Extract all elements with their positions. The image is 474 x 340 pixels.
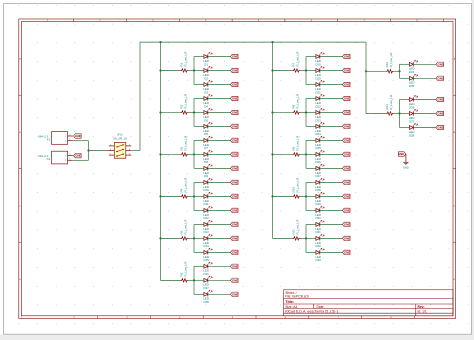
wire feed R6 xyxy=(161,279,195,281)
LED D5 xyxy=(203,108,212,122)
LED D25 xyxy=(315,136,324,150)
svg-text:Title:: Title: xyxy=(285,300,294,304)
junction branch R5 xyxy=(193,237,195,239)
svg-text:GND: GND xyxy=(344,139,350,143)
wire feed R8 xyxy=(273,111,307,113)
wire GND label to ground symbol xyxy=(405,154,407,162)
connector X1 (MA-2-1) xyxy=(39,132,73,145)
svg-text:R_Low_LR: R_Low_LR xyxy=(183,177,187,193)
LED D36 xyxy=(409,95,418,109)
wire feed R3 xyxy=(161,153,195,155)
resistor R10 xyxy=(291,177,300,198)
wire to LED D25 xyxy=(306,139,316,141)
GND global label at D29 xyxy=(342,194,350,198)
wire feed R11 xyxy=(273,237,307,239)
LED D26 xyxy=(315,150,324,164)
svg-text:GND: GND xyxy=(344,167,350,171)
svg-text:GND: GND xyxy=(232,292,238,296)
LED D15 xyxy=(203,248,212,262)
LED D13 xyxy=(203,220,212,234)
GND global label at D5 xyxy=(230,110,238,114)
GND global label at D17 xyxy=(230,278,238,282)
wire LED D38 to GND label xyxy=(413,127,436,129)
wire LED D6 to GND label xyxy=(208,125,231,127)
wire LED D25 to GND label xyxy=(320,139,343,141)
wire LED D20 to GND label xyxy=(320,70,343,72)
svg-text:D3: D3 xyxy=(204,90,208,94)
GND global label at D28 xyxy=(342,180,350,184)
wire branch R2 xyxy=(193,99,195,127)
wire to LED D35 xyxy=(400,77,410,79)
svg-text:D8: D8 xyxy=(204,160,208,164)
wire to LED D14 xyxy=(194,237,204,239)
svg-text:GND: GND xyxy=(232,111,238,115)
GND global label at D21 xyxy=(342,82,350,86)
LED D29 xyxy=(315,192,324,206)
svg-text:D30: D30 xyxy=(315,216,321,220)
LED D9 xyxy=(203,164,212,178)
svg-text:D34: D34 xyxy=(409,70,415,74)
svg-text:D23: D23 xyxy=(315,118,321,122)
svg-text:GND: GND xyxy=(437,76,443,80)
svg-text:GND: GND xyxy=(437,126,443,130)
wire branch R9 xyxy=(305,140,307,168)
wire to LED D15 xyxy=(194,251,204,253)
GND global label at D37 xyxy=(436,111,444,115)
ground power symbol GND xyxy=(403,162,409,169)
junction branch R6 xyxy=(193,279,195,281)
wire feed R4 xyxy=(161,195,195,197)
svg-text:GND: GND xyxy=(232,278,238,282)
svg-text:GND: GND xyxy=(344,209,350,213)
GND global label at D8 xyxy=(230,152,238,156)
GND global label at D25 xyxy=(342,138,350,142)
wire LED D14 to GND label xyxy=(208,237,231,239)
resistor R7 xyxy=(291,51,300,72)
wire LED D4 to GND label xyxy=(208,98,231,100)
LED D12 xyxy=(203,206,212,220)
svg-text:GND: GND xyxy=(344,55,350,59)
wire LED D26 to GND label xyxy=(320,153,343,155)
wire LED D13 to GND label xyxy=(208,223,231,225)
wire to LED D38 xyxy=(400,127,410,129)
svg-text:R_Low_LR: R_Low_LR xyxy=(295,219,299,235)
frame row ticks and letters xyxy=(19,57,456,281)
wire LED D11 to GND label xyxy=(208,195,231,197)
GND global label at D35 xyxy=(436,76,444,80)
LED D35 xyxy=(409,74,418,88)
LED D20 xyxy=(315,66,324,80)
svg-text:GND: GND xyxy=(232,153,238,157)
LED D27 xyxy=(315,164,324,178)
svg-text:GND: GND xyxy=(232,97,238,101)
LED D30 xyxy=(315,206,324,220)
svg-text:D11: D11 xyxy=(204,202,209,206)
wire to LED D5 xyxy=(194,112,204,114)
GND global label at D22 xyxy=(342,96,350,100)
wire to LED D37 xyxy=(400,113,410,115)
wire LED D17 to GND label xyxy=(208,279,231,281)
junction branch R10 xyxy=(305,195,307,197)
wire LED D5 to GND label xyxy=(208,112,231,114)
svg-text:R_Low_LR: R_Low_LR xyxy=(183,219,187,235)
wire to LED D32 xyxy=(306,237,316,239)
resistor R5 xyxy=(179,219,188,240)
svg-text:GND: GND xyxy=(344,97,350,101)
wire to LED D12 xyxy=(194,209,204,211)
wire LED D7 to GND label xyxy=(208,139,231,141)
GND global label at D9 xyxy=(230,166,238,170)
wire feed R1 xyxy=(161,69,195,71)
svg-text:GND: GND xyxy=(344,111,350,115)
svg-text:File: bePCB.sch: File: bePCB.sch xyxy=(285,295,309,299)
svg-text:GND: GND xyxy=(344,223,350,227)
wire to LED D21 xyxy=(306,84,316,86)
junction middle bus R9 xyxy=(271,153,273,155)
LED D3 xyxy=(203,80,212,94)
svg-text:GND: GND xyxy=(232,83,238,87)
GND global label at D38 xyxy=(436,125,444,129)
svg-text:GND: GND xyxy=(344,251,350,255)
wire feed R2 xyxy=(161,111,195,113)
LED D10 xyxy=(203,178,212,192)
svg-text:GND: GND xyxy=(232,167,238,171)
GND global label at D4 xyxy=(230,96,238,100)
svg-text:GND: GND xyxy=(232,181,238,185)
wire LED D29 to GND label xyxy=(320,195,343,197)
svg-text:GND: GND xyxy=(232,209,238,213)
wire X1 pin1 to junction xyxy=(73,140,89,142)
svg-text:X2: X2 xyxy=(47,157,51,161)
svg-text:GND: GND xyxy=(398,152,404,156)
svg-text:GND: GND xyxy=(437,62,443,66)
wire to LED D19 xyxy=(306,56,316,58)
title block xyxy=(284,290,454,316)
wire to LED D4 xyxy=(194,98,204,100)
wire LED D8 to GND label xyxy=(208,153,231,155)
junction top wire / middle bus xyxy=(271,41,273,43)
wire junction to SV1 pin 3 xyxy=(89,150,109,152)
GND global label at D10 xyxy=(230,180,238,184)
GND global label at D33 xyxy=(342,250,350,254)
wire to LED D29 xyxy=(306,195,316,197)
wire LED D37 to GND label xyxy=(413,113,436,115)
svg-text:GND: GND xyxy=(344,69,350,73)
svg-text:R_Low_LR: R_Low_LR xyxy=(183,261,187,277)
svg-text:D6: D6 xyxy=(204,132,208,136)
svg-text:R_Low_LR: R_Low_LR xyxy=(183,51,187,67)
GND global label at D23 xyxy=(342,110,350,114)
GND global label at D30 xyxy=(342,208,350,212)
svg-text:GND: GND xyxy=(344,181,350,185)
svg-text:D32: D32 xyxy=(315,244,321,248)
wire LED D33 to GND label xyxy=(320,251,343,253)
svg-text:GND: GND xyxy=(437,98,443,102)
resistor R1 xyxy=(179,51,188,72)
svg-text:D15: D15 xyxy=(203,258,209,262)
wire to LED D7 xyxy=(194,139,204,141)
svg-text:GND: GND xyxy=(232,55,238,59)
wire feed R13 xyxy=(366,113,400,115)
wire to LED D9 xyxy=(194,167,204,169)
LED D4 xyxy=(203,94,212,108)
GND global label at D19 xyxy=(342,54,350,58)
wire to LED D23 xyxy=(306,112,316,114)
wire to LED D33 xyxy=(306,251,316,253)
wire branch R13 xyxy=(399,100,401,128)
LED D37 xyxy=(409,109,418,123)
GND global label at D16 xyxy=(230,264,238,268)
LED D32 xyxy=(315,234,324,248)
wire to LED D20 xyxy=(306,70,316,72)
resistor R9 xyxy=(291,135,300,156)
wire LED D22 to GND label xyxy=(320,98,343,100)
GND global label at D26 xyxy=(342,152,350,156)
wire to LED D22 xyxy=(306,98,316,100)
wire LED D10 to GND label xyxy=(208,181,231,183)
wire LED D3 to GND label xyxy=(208,84,231,86)
resistor R13 xyxy=(385,94,394,115)
svg-text:D35: D35 xyxy=(409,84,415,88)
junction branch R1 xyxy=(193,69,195,71)
svg-text:KiCad E.D.A. eeschema (5.1.5): KiCad E.D.A. eeschema (5.1.5)-1 xyxy=(285,309,338,313)
LED D8 xyxy=(203,150,212,164)
svg-text:2: 2 xyxy=(69,154,70,156)
sheet frame inner border xyxy=(21,22,453,316)
svg-text:1: 1 xyxy=(110,144,111,146)
junction branch R8 xyxy=(305,111,307,113)
svg-text:4: 4 xyxy=(129,149,130,151)
wire branch R11 xyxy=(305,224,307,252)
svg-text:D7: D7 xyxy=(204,146,208,150)
svg-text:R_Low_LR: R_Low_LR xyxy=(295,135,299,151)
connector X2 (MA-2-1) xyxy=(39,151,73,164)
LED D23 xyxy=(315,108,324,122)
svg-text:D37: D37 xyxy=(409,119,415,123)
svg-text:D29: D29 xyxy=(315,202,321,206)
wire LED D12 to GND label xyxy=(208,209,231,211)
LED D34 xyxy=(409,60,418,74)
LED D6 xyxy=(203,122,212,136)
wire to LED D30 xyxy=(306,209,316,211)
wire branch R5 xyxy=(193,224,195,252)
wire to LED D36 xyxy=(400,99,410,101)
svg-text:GND: GND xyxy=(232,264,238,268)
GND global label at power symbol xyxy=(398,152,406,156)
GND global label at D34 xyxy=(436,62,444,66)
svg-text:GND: GND xyxy=(437,112,443,116)
GND global label at D15 xyxy=(230,250,238,254)
wire LED D23 to GND label xyxy=(320,112,343,114)
svg-text:5: 5 xyxy=(110,154,111,156)
svg-text:R_Low_LR: R_Low_LR xyxy=(183,93,187,109)
svg-text:D36: D36 xyxy=(409,105,415,109)
junction top wire / left bus xyxy=(159,41,161,43)
svg-text:D38: D38 xyxy=(409,133,415,137)
junction left bus R3 xyxy=(159,153,161,155)
svg-text:R_Low_LR: R_Low_LR xyxy=(183,135,187,151)
wire to LED D31 xyxy=(306,223,316,225)
GND global label at X1 pin 2 xyxy=(74,134,82,138)
frame column ticks and numbers xyxy=(21,19,444,319)
LED D11 xyxy=(203,192,212,206)
GND global label at D31 xyxy=(342,222,350,226)
svg-text:GND: GND xyxy=(232,139,238,143)
wire to LED D13 xyxy=(194,223,204,225)
GND global label at D2 xyxy=(230,68,238,72)
wire to LED D28 xyxy=(306,181,316,183)
wire LED D2 to GND label xyxy=(208,70,231,72)
svg-text:R_Low_LR: R_Low_LR xyxy=(389,52,393,68)
wire branch R4 xyxy=(193,182,195,210)
wire LED D27 to GND label xyxy=(320,167,343,169)
resistor R12 xyxy=(385,52,394,73)
svg-text:D21: D21 xyxy=(315,90,321,94)
svg-text:6: 6 xyxy=(129,154,130,156)
svg-text:D26: D26 xyxy=(315,160,321,164)
GND global label at X2 pin 2 xyxy=(74,153,82,157)
wire LED D16 to GND label xyxy=(208,265,231,267)
canvas area outside paper (right strip) xyxy=(472,0,474,340)
svg-text:3: 3 xyxy=(110,149,111,151)
junction left bus R1 xyxy=(159,69,161,71)
wire to LED D34 xyxy=(400,63,410,65)
svg-text:D20: D20 xyxy=(315,76,321,80)
svg-text:5A_2R_J0: 5A_2R_J0 xyxy=(113,137,127,141)
junction right riser R12 xyxy=(365,70,367,72)
svg-text:D1: D1 xyxy=(204,62,208,66)
wire to LED D26 xyxy=(306,153,316,155)
wire LED D9 to GND label xyxy=(208,167,231,169)
svg-text:D31: D31 xyxy=(315,230,321,234)
svg-text:Id: 1/1: Id: 1/1 xyxy=(418,310,427,314)
svg-text:R_Low_LR: R_Low_LR xyxy=(295,93,299,109)
svg-text:Date:: Date: xyxy=(317,305,325,309)
wire top feed horizontal xyxy=(140,41,366,43)
wire LED D31 to GND label xyxy=(320,223,343,225)
svg-text:GND: GND xyxy=(344,83,350,87)
GND global label at D1 xyxy=(230,54,238,58)
junction branch R7 xyxy=(305,69,307,71)
GND global label at D32 xyxy=(342,236,350,240)
svg-text:Size: A4: Size: A4 xyxy=(285,305,297,309)
svg-text:Rev:: Rev: xyxy=(418,305,425,309)
svg-text:D14: D14 xyxy=(203,244,209,248)
GND global label at D7 xyxy=(230,138,238,142)
wire branch R10 xyxy=(305,182,307,210)
junction middle bus R7 xyxy=(271,69,273,71)
svg-text:D13: D13 xyxy=(203,230,209,234)
svg-text:D33: D33 xyxy=(315,258,321,262)
wire left bus vertical xyxy=(160,42,162,280)
wire branch R3 xyxy=(193,140,195,168)
LED D16 xyxy=(203,262,212,276)
wire to LED D2 xyxy=(194,70,204,72)
wire branch R6 xyxy=(193,266,195,294)
wire LED D18 to GND label xyxy=(208,293,231,295)
wire branch R12 xyxy=(399,64,401,78)
junction middle bus R8 xyxy=(271,111,273,113)
svg-text:1: 1 xyxy=(69,159,70,161)
GND global label at D6 xyxy=(230,124,238,128)
LED D21 xyxy=(315,80,324,94)
LED D2 xyxy=(203,66,212,80)
svg-text:1: 1 xyxy=(69,139,70,141)
GND global label at D18 xyxy=(230,292,238,296)
svg-text:D17: D17 xyxy=(203,286,209,290)
wire branch R1 xyxy=(193,57,195,85)
svg-text:D12: D12 xyxy=(203,216,209,220)
LED D31 xyxy=(315,220,324,234)
resistor R2 xyxy=(179,93,188,114)
junction left bus R5 xyxy=(159,237,161,239)
GND global label at D12 xyxy=(230,208,238,212)
LED D18 xyxy=(203,290,212,304)
LED D28 xyxy=(315,178,324,192)
LED D17 xyxy=(203,276,212,290)
svg-text:GND: GND xyxy=(344,237,350,241)
LED D14 xyxy=(203,234,212,248)
LED D33 xyxy=(315,248,324,262)
resistor R4 xyxy=(179,177,188,198)
wire feed R5 xyxy=(161,237,195,239)
junction branch R4 xyxy=(193,195,195,197)
GND global label at D27 xyxy=(342,166,350,170)
wire branch R7 xyxy=(305,57,307,85)
svg-text:2: 2 xyxy=(69,134,70,136)
junction branch R11 xyxy=(305,237,307,239)
canvas area outside paper (bottom strip) xyxy=(0,334,474,340)
junction branch R12 xyxy=(398,70,400,72)
wire to LED D27 xyxy=(306,167,316,169)
svg-text:R_Low_LR: R_Low_LR xyxy=(295,51,299,67)
junction branch R9 xyxy=(305,153,307,155)
wire to LED D17 xyxy=(194,279,204,281)
wire feed R12 xyxy=(366,70,400,72)
wire feed R9 xyxy=(273,153,307,155)
LED D19 xyxy=(315,52,324,66)
wire middle bus vertical xyxy=(272,42,274,238)
GND global label at D20 xyxy=(342,68,350,72)
wire to LED D1 xyxy=(194,56,204,58)
junction at X1/X2 join xyxy=(87,149,89,151)
svg-text:GND: GND xyxy=(232,69,238,73)
wire vertical X1-X2 join xyxy=(88,141,90,161)
svg-text:GND: GND xyxy=(75,154,81,158)
svg-text:D25: D25 xyxy=(315,146,321,150)
svg-text:GND: GND xyxy=(232,223,238,227)
wire LED D24 to GND label xyxy=(320,125,343,127)
wire to LED D16 xyxy=(194,265,204,267)
wire LED D15 to GND label xyxy=(208,251,231,253)
LED D7 xyxy=(203,136,212,150)
svg-text:GND: GND xyxy=(344,195,350,199)
wire to LED D24 xyxy=(306,125,316,127)
svg-text:D19: D19 xyxy=(315,62,321,66)
wire LED D30 to GND label xyxy=(320,209,343,211)
LED D22 xyxy=(315,94,324,108)
svg-text:R_Low_LR: R_Low_LR xyxy=(295,177,299,193)
svg-text:GND: GND xyxy=(344,125,350,129)
wire right riser vertical xyxy=(365,42,367,113)
svg-text:GND: GND xyxy=(75,134,81,138)
GND global label at D11 xyxy=(230,194,238,198)
svg-text:D9: D9 xyxy=(204,174,208,178)
svg-text:D4: D4 xyxy=(204,104,208,108)
wire X2 pin1 to junction xyxy=(73,159,89,161)
junction middle bus R10 xyxy=(271,195,273,197)
GND global label at D3 xyxy=(230,82,238,86)
